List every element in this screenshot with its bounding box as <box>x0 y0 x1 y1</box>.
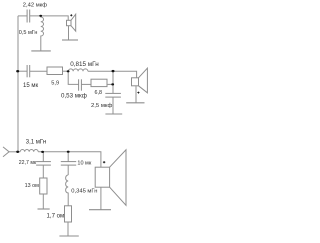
node input junction <box>16 151 19 153</box>
node branch 10 мк <box>67 151 70 153</box>
wire branch down from node <box>68 71 78 84</box>
inductor 0,345 мГн <box>66 175 69 206</box>
capacitor 2,5 мкф <box>105 93 121 97</box>
speaker woofer cone <box>110 150 126 206</box>
node mid branch left <box>67 70 70 72</box>
wire resistor 6,8 to junction <box>107 83 113 85</box>
wire mid right junction vertical <box>112 71 114 93</box>
wire branch 10 мк down <box>67 152 69 162</box>
wire branch 22,7 мк down <box>42 152 44 162</box>
svg-text:2,5 мкф: 2,5 мкф <box>91 103 112 109</box>
capacitor 22,7 мк <box>36 162 51 166</box>
svg-text:0,53 мкф: 0,53 мкф <box>61 92 87 99</box>
wire resistor 1,7 ом to ground <box>67 222 69 236</box>
wire woofer to ground <box>100 187 102 209</box>
wire cap 10 мк to inductor <box>67 165 69 175</box>
speaker midrange body <box>132 78 139 86</box>
svg-text:0,5 мГн: 0,5 мГн <box>19 30 38 36</box>
ground bar under 2,5 мкф <box>105 113 122 115</box>
wire midrange speaker to ground <box>135 86 137 103</box>
speaker tweeter body <box>67 20 72 25</box>
svg-text:1,7 ом: 1,7 ом <box>47 212 65 219</box>
svg-text:3,1 мГн: 3,1 мГн <box>26 139 46 145</box>
inductor 0,5 мГн <box>41 16 44 51</box>
node mid right junction bottom <box>111 83 114 85</box>
wire cap to resistor 5,9 <box>30 70 47 72</box>
wire inductor to speaker <box>88 71 137 78</box>
ground bar under 1,7 ом <box>59 235 78 237</box>
capacitor 10 мк <box>61 162 76 166</box>
inductor 0,815 мГн <box>68 69 88 71</box>
speaker woofer body <box>95 167 109 187</box>
svg-text:0,345 мГн: 0,345 мГн <box>71 188 97 194</box>
node mid right junction top <box>112 70 115 72</box>
ground bar under 0,5 мГн <box>31 50 51 52</box>
input terminal chevron <box>3 147 9 157</box>
svg-text:5,9: 5,9 <box>51 81 59 87</box>
capacitor 2,42 мкф <box>27 10 30 23</box>
ground bar under tweeter <box>62 39 78 41</box>
wire resistor 13 ом to ground <box>42 194 44 209</box>
ground bar under woofer <box>89 209 111 211</box>
resistor 13 ом <box>40 178 47 194</box>
resistor 6,8 <box>91 79 107 86</box>
node top inductor tap <box>39 15 42 17</box>
resistor 5,9 <box>47 67 63 75</box>
wire resistor to node <box>63 70 69 72</box>
wire input rail vertical <box>17 16 19 152</box>
wire cap 2,5 мкф to ground <box>112 97 114 114</box>
svg-text:0,815 мГн: 0,815 мГн <box>70 61 99 68</box>
wire input to rail <box>9 151 20 153</box>
polarity plus midrange <box>137 92 139 94</box>
node rail to mid section <box>16 70 19 72</box>
resistor 1,7 ом <box>65 206 72 222</box>
speaker midrange cone <box>139 68 148 93</box>
svg-text:15 мк: 15 мк <box>23 83 38 89</box>
wire tweeter to ground <box>68 26 70 40</box>
inductor 3,1 мГн <box>20 150 38 152</box>
wire cap 22,7 мк to resistor 13 ом <box>42 165 44 178</box>
svg-text:6,8: 6,8 <box>95 90 103 96</box>
wire bottom section to woofer <box>38 152 101 167</box>
polarity plus woofer <box>103 161 105 163</box>
wire mid section left <box>18 70 27 72</box>
ground bar under 13 ом <box>38 208 50 210</box>
svg-text:2,42 мкф: 2,42 мкф <box>23 3 47 9</box>
capacitor 15 мк <box>27 65 30 77</box>
wire cap to resistor 6,8 <box>81 83 91 85</box>
svg-text:10 мк: 10 мк <box>77 160 91 166</box>
wire top section horizontal left <box>18 15 27 17</box>
polarity plus tweeter <box>70 14 72 16</box>
speaker tweeter cone <box>71 14 76 31</box>
wire top section horizontal right <box>30 16 68 20</box>
capacitor 0,53 мкф <box>79 79 82 90</box>
svg-text:13 ом: 13 ом <box>25 183 39 189</box>
svg-text:22,7 мк: 22,7 мк <box>19 160 37 166</box>
node branch 22,7 мк <box>41 151 44 153</box>
ground bar under midrange speaker <box>126 102 144 104</box>
